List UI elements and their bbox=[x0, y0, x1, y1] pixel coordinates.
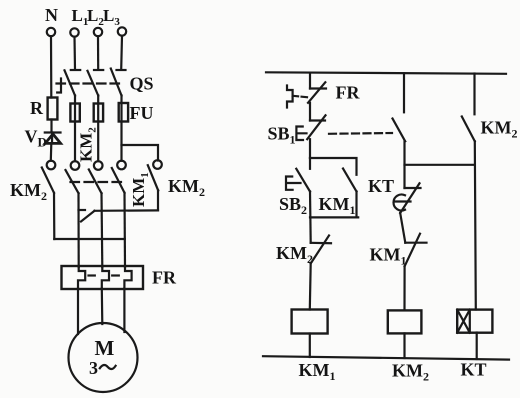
motor M circle bbox=[69, 323, 138, 392]
timer contact KT blade bbox=[400, 183, 419, 213]
contact 3 blade bbox=[89, 170, 102, 194]
bottom bus bbox=[263, 356, 509, 359]
top bus bbox=[266, 72, 506, 74]
wire KM2 contact to coil bbox=[309, 264, 312, 310]
wire KM2 NO to coil KT bbox=[475, 141, 476, 309]
switch QS pole 3 blade bbox=[111, 69, 122, 96]
bridge wire horizontal bbox=[95, 209, 159, 212]
svg-text:KM2: KM2 bbox=[10, 180, 47, 203]
linkage SB1 dashed bbox=[329, 132, 392, 135]
svg-text:3: 3 bbox=[89, 358, 98, 378]
wire VD to contact 1 bbox=[50, 144, 53, 161]
contact 4 blade bbox=[112, 168, 125, 193]
coil KT delay X cell bbox=[457, 310, 470, 333]
fuse FU 1 bbox=[70, 104, 79, 122]
wire parallel branch top bbox=[310, 158, 357, 175]
coil KM1 bbox=[292, 310, 328, 334]
diode VD triangle bbox=[45, 134, 60, 143]
FR heater 1 bbox=[78, 267, 85, 289]
timer contact KT delay arc bbox=[394, 195, 411, 211]
button SB1 NO blade bbox=[393, 119, 406, 142]
terminal L2 bbox=[94, 28, 102, 36]
switch QS pole 3 fixed contact bbox=[117, 69, 126, 71]
wire FR to SB1 bbox=[309, 103, 311, 121]
FR heater 3 bbox=[124, 267, 131, 289]
contact 2 fixed terminal bbox=[71, 161, 80, 170]
svg-text:FR: FR bbox=[152, 268, 177, 288]
svg-text:SB1: SB1 bbox=[268, 124, 296, 147]
wire L3 terminal to QS bbox=[120, 36, 123, 70]
svg-text:KM1: KM1 bbox=[319, 194, 356, 217]
wire KM1 NC to coil KM2 bbox=[403, 266, 405, 310]
wire bus to SB1 NO bbox=[403, 73, 405, 112]
contact KM1 aux blade bbox=[343, 169, 357, 192]
svg-text:N: N bbox=[45, 5, 58, 25]
svg-text:R: R bbox=[30, 98, 44, 118]
contact KM2 NC tick bbox=[311, 242, 331, 245]
svg-text:L2: L2 bbox=[87, 6, 104, 28]
contact 3 fixed terminal bbox=[94, 161, 103, 170]
wire KT contact to KM1 NC bbox=[400, 213, 405, 243]
diode VD cathode bar bbox=[45, 131, 61, 133]
button SB1 cap bbox=[296, 127, 306, 141]
wire phase B contact3 to FR bbox=[100, 193, 103, 267]
switch QS pole 1 blade bbox=[65, 70, 76, 95]
terminal N bbox=[47, 28, 55, 36]
wire L1 terminal to QS bbox=[73, 37, 76, 70]
relay contact FR tick bbox=[310, 87, 326, 89]
svg-text:KT: KT bbox=[461, 360, 487, 380]
contact KM2 NO blade bbox=[462, 117, 475, 142]
wire L2 terminal to QS bbox=[97, 36, 99, 69]
wire bus to FR contact bbox=[309, 73, 311, 89]
wire FR to motor C bbox=[123, 289, 125, 333]
switch QS pole 2 blade bbox=[88, 71, 99, 96]
FR linkage dash 1 bbox=[89, 274, 95, 276]
svg-text:KM2: KM2 bbox=[77, 127, 99, 162]
wire lower bus horizontal bbox=[54, 238, 125, 240]
button SB1 blade bbox=[307, 115, 325, 139]
wire coil KM2 to bus bbox=[403, 333, 405, 358]
main contacts linkage dashed bbox=[71, 181, 127, 183]
relay FR heater link dashed bbox=[293, 96, 307, 97]
wire bus to KM2 NO bbox=[473, 74, 475, 115]
button SB2 blade bbox=[296, 169, 310, 192]
contact 2 blade bbox=[66, 170, 79, 193]
svg-text:KM2: KM2 bbox=[392, 361, 429, 384]
contact 5 blade (KM2 branch) bbox=[148, 165, 158, 190]
wire SB1 NO to junction bbox=[403, 141, 405, 188]
wire phase A contact2 to FR bbox=[77, 193, 79, 267]
contact 1 fixed terminal bbox=[47, 161, 56, 170]
svg-text:L1: L1 bbox=[72, 6, 89, 28]
wire R to VD bbox=[50, 120, 52, 133]
svg-text:SB2: SB2 bbox=[279, 194, 307, 217]
wire L2 QS to contact 3 bbox=[97, 96, 99, 162]
relay FR heater element bbox=[287, 86, 293, 108]
wire contact5 down bbox=[157, 190, 159, 210]
svg-text:KM2: KM2 bbox=[168, 176, 205, 199]
wire branch L3 to KM2 contact 5 bbox=[122, 145, 159, 161]
contact KM2 NC blade bbox=[311, 236, 329, 264]
wire junction to SB2 bbox=[309, 158, 311, 169]
wire phase C contact4 to FR bbox=[123, 193, 126, 267]
contact 1 blade (KM2) bbox=[42, 168, 54, 193]
thermal relay FR box bbox=[62, 266, 144, 289]
svg-text:KM1: KM1 bbox=[129, 172, 151, 207]
wire L3 QS to contact 4 bbox=[120, 96, 122, 161]
contact KM1 NC blade bbox=[405, 234, 420, 267]
switch QS pole 2 fixed contact bbox=[94, 69, 103, 71]
svg-text:FU: FU bbox=[130, 103, 154, 123]
contact 4 fixed terminal bbox=[117, 161, 126, 170]
wire parallel branch bottom bbox=[310, 192, 358, 218]
coil KT box bbox=[457, 310, 492, 333]
switch QS linkage dashed bbox=[57, 82, 120, 84]
wire FR to motor B bbox=[101, 289, 104, 325]
FR heater 2 bbox=[102, 267, 109, 289]
fuse FU 3 bbox=[119, 103, 128, 122]
svg-text:L3: L3 bbox=[103, 6, 120, 28]
fuse FU 2 bbox=[94, 104, 103, 122]
FR linkage dash 2 bbox=[112, 274, 119, 276]
wire SB2 to KM2 contact bbox=[309, 192, 312, 243]
relay contact FR blade bbox=[308, 82, 325, 103]
svg-text:M: M bbox=[95, 336, 115, 360]
svg-text:KM1: KM1 bbox=[299, 360, 336, 383]
wire coil KM1 to bus bbox=[309, 334, 311, 358]
bridge blade bbox=[81, 211, 95, 222]
terminal L1 bbox=[70, 28, 78, 36]
resistor R bbox=[48, 98, 58, 120]
terminal L3 bbox=[118, 27, 126, 35]
timer contact KT tick bbox=[405, 187, 421, 189]
svg-text:KM1: KM1 bbox=[370, 245, 407, 268]
switch QS pole 1 fixed contact bbox=[71, 69, 80, 71]
coil KM2 bbox=[388, 310, 422, 333]
button SB2 cap bbox=[286, 177, 301, 190]
contact KM1 NC tick bbox=[405, 242, 426, 244]
wire N terminal to R bbox=[50, 36, 52, 97]
svg-text:VD: VD bbox=[25, 127, 47, 150]
bridge fixed tick bbox=[79, 209, 86, 211]
switch QS handle bbox=[57, 79, 61, 93]
wire through VD bbox=[51, 133, 53, 144]
wire L1 QS to contact 2 bbox=[74, 96, 76, 162]
wire SB1 to junction bbox=[309, 139, 311, 158]
wire FR to motor A bbox=[77, 289, 79, 335]
wire junction branch2 to branch3 bbox=[405, 164, 475, 166]
svg-text:KM2: KM2 bbox=[276, 243, 313, 266]
svg-text:KM2: KM2 bbox=[481, 118, 518, 141]
svg-text:KT: KT bbox=[368, 176, 394, 196]
wire coil KT to bus bbox=[476, 333, 478, 360]
motor tilde bbox=[100, 365, 116, 369]
wire contact1 down bbox=[53, 193, 55, 239]
contact 5 fixed terminal bbox=[153, 160, 162, 169]
button SB1 tick bbox=[310, 119, 325, 121]
svg-text:QS: QS bbox=[130, 74, 154, 94]
svg-text:FR: FR bbox=[336, 83, 361, 103]
